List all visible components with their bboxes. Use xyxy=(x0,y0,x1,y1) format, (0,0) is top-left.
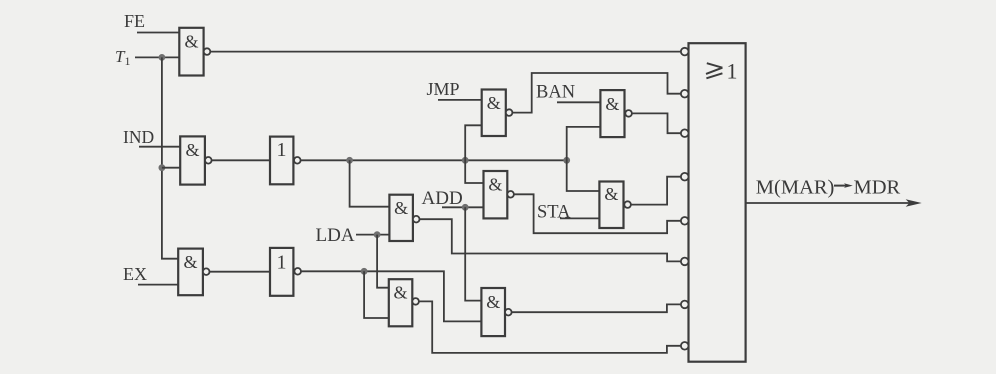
wire G-JMP output to OR input 2 xyxy=(512,73,681,113)
wire BAN input xyxy=(557,101,600,103)
and-gate G-BAN xyxy=(600,90,631,137)
wire G6 output to OR input 6 xyxy=(420,219,682,261)
svg-text:LDA: LDA xyxy=(316,225,355,246)
not-gate G3 xyxy=(270,137,301,185)
wire G8 output to OR input 5 xyxy=(514,194,681,233)
wire JMP input xyxy=(438,99,482,101)
svg-text:ADD: ADD xyxy=(422,188,463,209)
wire G10 output to OR input 7 xyxy=(512,304,681,312)
wire G3 output main line xyxy=(301,159,567,161)
and-gate G7 (LDA path) xyxy=(389,279,419,326)
svg-text:1: 1 xyxy=(277,252,287,274)
not-gate G5 xyxy=(270,248,301,296)
wire OR output arrow xyxy=(746,202,915,204)
or-gate U-OR (>=1) xyxy=(689,43,746,362)
wire EX input xyxy=(138,284,178,286)
svg-text:1: 1 xyxy=(727,59,738,84)
and-gate G9 (STA) xyxy=(599,182,630,229)
and-gate G2 (IND.T1) xyxy=(180,136,211,184)
wire J1 branch to G6 upper xyxy=(350,160,390,206)
and-gate G1 (FE.T1) xyxy=(179,28,210,76)
svg-text:&: & xyxy=(486,292,500,312)
svg-text:&: & xyxy=(394,198,408,218)
svg-text:FE: FE xyxy=(124,11,145,31)
svg-text:&: & xyxy=(487,93,501,113)
wire G2 to G3 xyxy=(212,159,270,161)
wire LDA input xyxy=(356,234,389,236)
wire ADD vertical to G10 upper xyxy=(465,207,481,300)
and-gate G4 (EX.T1) xyxy=(178,249,209,296)
and-gate G8 (middle) xyxy=(484,171,514,218)
svg-text:&: & xyxy=(185,140,199,160)
svg-text:1: 1 xyxy=(277,139,287,161)
wire T1 vertical bus xyxy=(162,57,178,258)
svg-text:&: & xyxy=(184,32,198,52)
wire G7 output to OR input 8 xyxy=(419,301,681,353)
wire J3 vertical (BAN lower input to G9 upper input) xyxy=(567,127,601,191)
and-gate G6 (ADD path) xyxy=(389,195,419,241)
wire G5 output to G10 lower input xyxy=(301,271,481,321)
wire IND input xyxy=(139,146,180,148)
wire to G2 lower input xyxy=(162,167,180,169)
svg-text:JMP: JMP xyxy=(427,79,460,99)
wire G1 output to OR input 1 xyxy=(210,51,681,53)
node ADD junction xyxy=(462,204,469,211)
node J4 xyxy=(361,268,368,275)
wire LDA vertical to G7 upper xyxy=(377,235,389,288)
wire ADD input with junction xyxy=(442,206,484,208)
wire FE input xyxy=(137,32,179,34)
wire G4 to G5 xyxy=(210,271,271,273)
wire G-BAN output to OR input 3 xyxy=(632,113,681,133)
node T1 junction IND xyxy=(159,164,166,171)
wire J2 vertical (JMP lower input to G8 upper input) xyxy=(465,125,483,183)
or-gate input bubbles xyxy=(681,48,689,56)
svg-text:&: & xyxy=(488,175,502,195)
svg-text:MDR: MDR xyxy=(854,177,901,199)
svg-text:M(MAR): M(MAR) xyxy=(756,177,835,199)
node J3 xyxy=(563,157,570,164)
svg-text:STA: STA xyxy=(537,202,571,222)
wire J4 branch to G7 lower xyxy=(364,271,389,318)
and-gate G-JMP xyxy=(482,90,513,137)
node J1 xyxy=(346,157,353,164)
svg-text:&: & xyxy=(183,252,197,272)
svg-text:EX: EX xyxy=(123,264,147,284)
svg-text:IND: IND xyxy=(123,127,154,147)
wire STA input xyxy=(560,217,599,219)
node T1 junction top xyxy=(159,54,166,61)
svg-text:&: & xyxy=(393,283,407,303)
wire T1 input xyxy=(135,56,179,58)
node J2 xyxy=(462,157,469,164)
node LDA junction xyxy=(374,231,381,238)
wire G9 output to OR input 4 xyxy=(631,177,681,205)
svg-text:&: & xyxy=(605,94,619,114)
svg-text:BAN: BAN xyxy=(536,83,575,103)
and-gate G10 xyxy=(481,288,511,336)
svg-text:&: & xyxy=(604,184,618,204)
